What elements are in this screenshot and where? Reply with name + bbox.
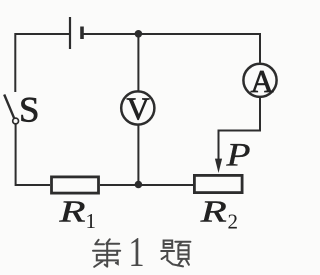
- svg-text:P: P: [225, 138, 250, 174]
- wire top-left horizontal: [15, 33, 69, 35]
- voltmeter U1 circle: [121, 91, 154, 124]
- resistor R1 box: [52, 177, 99, 193]
- wire switch down left side: [15, 124, 17, 184]
- wire bottom-left horizontal: [15, 184, 50, 186]
- wire horizontal to slider: [219, 130, 262, 132]
- switch S blade: [4, 95, 14, 119]
- slider arrow into R2: [215, 159, 222, 173]
- svg-text:1: 1: [129, 230, 145, 275]
- battery B1 short plate: [80, 27, 84, 40]
- caption character DI (第): [93, 239, 120, 266]
- wire right vertical to ammeter: [259, 33, 261, 63]
- wire left vertical to switch: [14, 33, 16, 92]
- rheostat R2 box: [194, 175, 242, 192]
- wire ammeter down: [259, 97, 261, 131]
- wire top-right horizontal: [83, 33, 260, 35]
- svg-text:V: V: [126, 90, 149, 126]
- svg-text:S: S: [19, 90, 40, 130]
- wire slider vertical: [218, 130, 220, 162]
- caption character TI (题): [161, 241, 190, 267]
- wire R1 to R2: [100, 184, 193, 186]
- wire voltmeter bottom: [137, 125, 139, 184]
- svg-text:2: 2: [228, 210, 239, 234]
- battery B1 long plate: [69, 17, 71, 49]
- svg-text:R: R: [58, 194, 85, 229]
- node top junction: [135, 30, 143, 38]
- wire voltmeter top: [137, 34, 139, 91]
- node bottom junction: [135, 181, 143, 189]
- switch S pivot circle: [13, 118, 19, 124]
- svg-text:A: A: [250, 63, 273, 99]
- svg-text:1: 1: [86, 209, 97, 233]
- ammeter U2 circle: [243, 64, 276, 97]
- svg-text:R: R: [199, 194, 226, 229]
